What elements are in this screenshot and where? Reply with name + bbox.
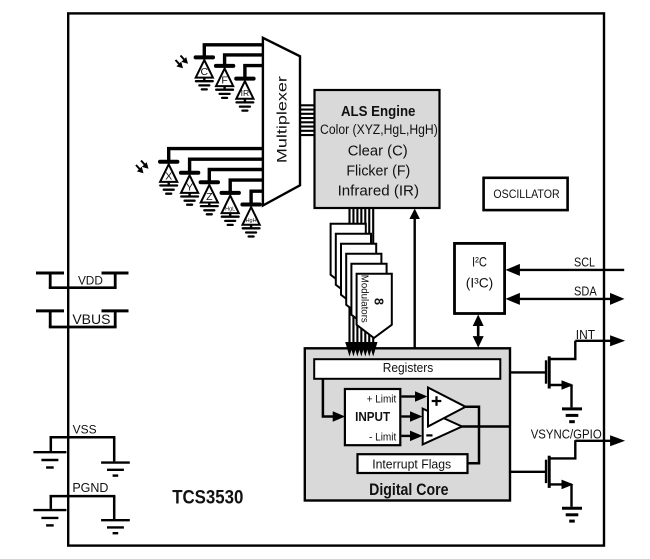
photodiode IR: [236, 79, 253, 99]
wire digital core to VSYNC/GPIO transistor gate: [510, 471, 546, 473]
photodiode C: [196, 57, 213, 78]
ground of photodiode IR: [237, 99, 254, 111]
wire photodiode Y to multiplexer: [190, 159, 265, 173]
comparator upper (+): [428, 388, 466, 427]
svg-text:IR: IR: [241, 88, 250, 98]
SDA wire and pin (bidirectional): [505, 284, 624, 305]
wire digital core to ALS engine (feedback arrow): [409, 209, 420, 349]
multiplexer: [263, 38, 300, 206]
I2C / I3C interface block: [455, 243, 505, 313]
wire photodiode IR to multiplexer: [245, 66, 264, 79]
ground of photodiode HgH: [243, 225, 260, 237]
svg-text:INPUT: INPUT: [355, 410, 390, 424]
svg-text:OSCILLATOR: OSCILLATOR: [493, 189, 559, 201]
wire -limit to comparator: [402, 431, 423, 442]
svg-text:8: 8: [371, 298, 385, 305]
VDD pin with terminals: [36, 273, 129, 288]
VSYNC/GPIO wire and pin: [531, 428, 625, 447]
svg-text:SDA: SDA: [574, 284, 597, 298]
svg-text:Interrupt Flags: Interrupt Flags: [372, 457, 451, 472]
ground left of PGND: [33, 510, 66, 525]
SCL wire and pin: [505, 255, 624, 276]
svg-text:Color (XYZ,HgL,HgH): Color (XYZ,HgL,HgH): [320, 122, 438, 137]
svg-text:Y: Y: [186, 181, 193, 193]
svg-text:HgL: HgL: [225, 207, 235, 213]
oscillator U-OSC: [484, 178, 568, 210]
ground of photodiode X: [160, 182, 177, 194]
photodiode HgL: [222, 193, 239, 213]
wire upper comparator output to interrupt flags: [466, 407, 479, 464]
svg-text:Flicker (F): Flicker (F): [346, 163, 410, 180]
wire I2C block to digital core (bidirectional): [473, 315, 484, 348]
svg-text:F: F: [221, 75, 227, 87]
svg-text:+ Limit: + Limit: [367, 393, 397, 405]
INT wire and pin: [575, 328, 625, 347]
chip boundary TCS3530: [68, 13, 604, 545]
svg-text:Clear (C): Clear (C): [348, 143, 408, 160]
ground of photodiode Z: [201, 203, 218, 215]
wire +limit to comparator: [402, 391, 428, 402]
ground left of VSS: [33, 452, 66, 467]
wire photodiode Z to multiplexer: [209, 170, 264, 183]
svg-text:(I³C): (I³C): [466, 274, 494, 290]
svg-text:SCL: SCL: [574, 255, 595, 269]
input block with limits: [345, 389, 400, 445]
ground of photodiode F: [216, 86, 233, 98]
ground of VSYNC/GPIO transistor: [562, 508, 582, 521]
bus ALS engine to modulators to registers (7 lines): [350, 208, 374, 344]
bus multiplexer to ALS engine (8 lines): [300, 105, 315, 135]
svg-text:Registers: Registers: [383, 361, 434, 375]
wire lower comparator output to core edge: [460, 425, 510, 428]
svg-text:X: X: [165, 170, 172, 182]
svg-text:VBUS: VBUS: [72, 311, 110, 327]
svg-text:Digital Core: Digital Core: [369, 481, 448, 499]
interrupt flags block: [358, 454, 468, 473]
wire photodiode F to multiplexer: [225, 55, 265, 66]
modulators stack (8 modulators): [331, 224, 387, 328]
svg-text:Multiplexer: Multiplexer: [274, 76, 290, 163]
svg-text:PGND: PGND: [72, 481, 108, 495]
ground right of PGND: [101, 520, 130, 533]
svg-text:INT: INT: [576, 328, 596, 342]
svg-text:TCS3530: TCS3530: [172, 486, 243, 508]
wire digital core to INT transistor gate: [510, 371, 546, 373]
wire photodiode HgL to multiplexer: [230, 180, 264, 193]
wire photodiode HgH to multiplexer: [251, 191, 264, 204]
ground right of VSS: [101, 463, 130, 476]
PGND pin: [50, 481, 116, 519]
comparator lower (-): [423, 409, 462, 445]
svg-text:Modulators: Modulators: [359, 275, 370, 323]
wire photodiode C to multiplexer: [204, 45, 264, 58]
ALS Engine block: [315, 90, 440, 208]
svg-text:I²C: I²C: [472, 253, 487, 269]
svg-text:ALS Engine: ALS Engine: [341, 103, 416, 120]
wire input to comparator: [402, 411, 423, 422]
svg-text:HgH: HgH: [246, 218, 257, 224]
registers block: [314, 359, 500, 379]
ground of photodiode HgL: [222, 213, 239, 225]
wire registers to input: [323, 379, 345, 422]
photodiode Z: [201, 182, 218, 203]
arrowheads modulators bus into registers: [345, 342, 377, 357]
wire photodiode X to multiplexer: [169, 149, 265, 162]
VSS pin: [50, 422, 116, 461]
light arrows lower photodiode group: [136, 161, 149, 174]
photodiode HgH: [242, 205, 259, 225]
photodiode F: [216, 66, 233, 87]
transistor VSYNC/GPIO (open-drain NMOS): [546, 440, 575, 507]
VBUS pin with terminals: [36, 311, 129, 327]
ground of photodiode Y: [181, 193, 198, 205]
photodiode X: [160, 162, 177, 183]
svg-text:VSS: VSS: [73, 422, 97, 436]
ground of INT transistor: [562, 409, 582, 422]
photodiode Y: [181, 173, 198, 194]
modulator front pentagon with labels: [357, 274, 392, 338]
svg-text:- Limit: - Limit: [369, 432, 396, 444]
light arrows upper photodiode group: [176, 56, 189, 69]
digital core block: [305, 348, 510, 500]
svg-text:Z: Z: [206, 191, 213, 203]
svg-text:C: C: [201, 66, 209, 78]
svg-text:VDD: VDD: [78, 274, 103, 288]
svg-text:Infrared (IR): Infrared (IR): [338, 183, 419, 200]
ground of photodiode C: [196, 78, 213, 90]
transistor INT (open-drain NMOS): [546, 341, 575, 408]
svg-text:VSYNC/GPIO: VSYNC/GPIO: [531, 428, 602, 442]
